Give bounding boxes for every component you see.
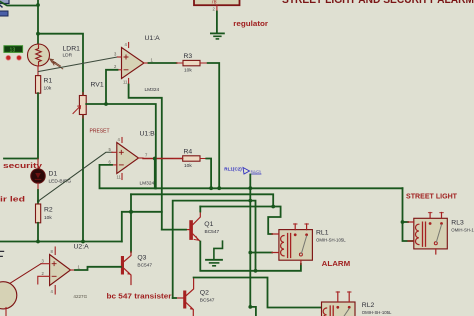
wire Q1 collector line — [200, 207, 280, 235]
op-amp U1:B — [112, 138, 143, 180]
svg-text:regulator: regulator — [233, 19, 268, 28]
node R2 trunk junction — [36, 240, 40, 244]
wire U1:B pin6 loop — [100, 165, 156, 188]
wire RV1 bottom down to trunk — [82, 115, 84, 242]
svg-text:ALARM: ALARM — [322, 259, 351, 268]
svg-text:11: 11 — [123, 80, 128, 85]
node bottom jog — [248, 305, 252, 309]
indicator dot left — [6, 55, 11, 60]
svg-text:OMIH-SH-105L: OMIH-SH-105L — [362, 310, 392, 315]
wire U2:A output to Q3 base — [75, 267, 121, 270]
transistor Q1 — [186, 212, 200, 242]
svg-text:10k: 10k — [44, 86, 52, 92]
node diagonal takeoff — [37, 200, 40, 203]
potentiometer RV1 — [73, 93, 86, 119]
relay RL2 — [322, 292, 356, 316]
wire U1:B output to R4 — [143, 158, 183, 160]
svg-text:11: 11 — [117, 175, 122, 180]
svg-text:RL1: RL1 — [316, 230, 329, 237]
svg-text:LM324: LM324 — [140, 181, 155, 187]
wire D1 to R2 — [37, 190, 39, 204]
svg-text:RL3: RL3 — [451, 220, 464, 227]
wire RV1 wiper to feedback column — [86, 104, 156, 188]
op-amp U1:A — [118, 43, 149, 85]
wire feedback loop vertical — [154, 159, 156, 189]
svg-text:ir led: ir led — [0, 195, 25, 204]
wire R1 bottom to security node — [4, 93, 38, 158]
pin numbers U1:B — [109, 137, 149, 180]
svg-text:4227G: 4227G — [73, 294, 87, 299]
svg-text:OMIH-SH-1: OMIH-SH-1 — [451, 228, 474, 233]
node trunk junctions — [209, 186, 213, 190]
wire RL1 pivot link — [256, 264, 301, 271]
indicator dot right — [17, 55, 22, 60]
relay RL3 — [408, 213, 447, 255]
svg-text:STREET LIGHT: STREET LIGHT — [406, 192, 457, 201]
wire blue label down trunk — [249, 175, 251, 307]
ground near Q1 — [206, 241, 223, 266]
svg-text:D1: D1 — [49, 171, 58, 178]
wire Q2 collector to RL2 — [194, 278, 322, 308]
wire Q1 collector up — [199, 207, 201, 212]
wire R4 to trunk — [206, 159, 211, 189]
blue terminal label RL1(C2) — [224, 167, 261, 174]
svg-text:LDR1: LDR1 — [63, 46, 81, 53]
svg-text:LM324: LM324 — [145, 87, 160, 93]
wire R3 to trunk — [208, 63, 220, 188]
node pivot tee — [254, 269, 258, 273]
regulator box — [194, 0, 240, 12]
svg-text:78: 78 — [211, 0, 217, 6]
wire trunk to RL3 coil — [403, 188, 414, 241]
svg-text:STREET LIGHT AND SECURITY ALAR: STREET LIGHT AND SECURITY ALARM — [282, 0, 474, 6]
svg-text:U1:B: U1:B — [140, 131, 156, 138]
ground marks left edge — [0, 251, 4, 256]
svg-text:10k: 10k — [184, 163, 192, 169]
clipped title text top right — [282, 0, 474, 6]
wire RL1 coil bottom to trunk — [250, 252, 272, 254]
resistor R3 — [177, 60, 208, 65]
probe display 13 — [4, 46, 23, 54]
svg-text:LDR: LDR — [63, 53, 73, 59]
svg-text:R4: R4 — [184, 149, 193, 156]
wire Q2 base line — [173, 201, 256, 298]
svg-text:U1:A: U1:A — [145, 35, 161, 42]
node top wire junction — [36, 3, 40, 7]
svg-text:Q1: Q1 — [204, 221, 213, 228]
svg-text:U2:A: U2:A — [74, 244, 90, 251]
node coil bottom junction — [248, 251, 252, 255]
svg-text:10k: 10k — [44, 215, 52, 221]
svg-text:RL1(C2): RL1(C2) — [251, 170, 261, 174]
node RL3 coil top branch — [401, 220, 405, 224]
ground regulator — [211, 33, 224, 39]
wire U1:A pin11 to Q1 base column — [129, 85, 162, 230]
wire regulator to ground — [216, 12, 218, 34]
LDR1 — [28, 44, 63, 69]
resistor R2 — [36, 204, 41, 223]
node line A to collector line — [271, 205, 275, 209]
svg-text:OMIH-SH-105L: OMIH-SH-105L — [316, 238, 346, 243]
wire Q3 collector column — [130, 194, 132, 252]
wire branch to trunk bottom — [122, 212, 162, 242]
node output feedback junction — [153, 157, 157, 161]
wire horizontal trunk y188 — [156, 187, 403, 189]
svg-text:RL2: RL2 — [362, 302, 375, 309]
blue label fragment left edge — [0, 11, 8, 16]
wire Q1 base — [162, 229, 186, 231]
svg-text:13: 13 — [10, 47, 16, 53]
node wiper pin2 junction — [104, 102, 108, 106]
transistor Q2 — [176, 278, 194, 316]
wire U1:A output to R3 — [149, 62, 177, 64]
op-amp U2:A — [38, 247, 75, 294]
relay RL1 — [272, 224, 312, 265]
wire Q2 base from trunk — [173, 297, 176, 299]
svg-text:R1: R1 — [44, 78, 53, 85]
wire bottom jog — [250, 307, 256, 316]
wire LDR bottom to R1 — [37, 66, 39, 76]
resistor R1 — [36, 76, 41, 94]
diagonal wire LDR to U1:A pin3 — [39, 57, 118, 72]
wire line A Q3 collector to Q1 collector line — [131, 194, 273, 206]
svg-text:BC547: BC547 — [205, 229, 220, 235]
svg-text:RV1: RV1 — [91, 82, 104, 89]
svg-text:R3: R3 — [184, 53, 193, 60]
LED D1 — [31, 159, 45, 190]
sensor circle bottom left — [0, 282, 17, 316]
node Q3 collector line crossing — [129, 210, 133, 214]
blue label fragment top-left corner — [0, 0, 9, 7]
svg-text:BC547: BC547 — [200, 297, 215, 303]
wire bottom trunk — [0, 241, 122, 243]
wire top-left corner diagonal — [0, 2, 38, 6]
pin numbers U1:A — [114, 42, 154, 85]
svg-text:Q2: Q2 — [200, 290, 209, 297]
pin numbers U2:A — [42, 249, 81, 294]
resistor R4 — [174, 156, 206, 161]
svg-text:bc 547 transister: bc 547 transister — [107, 292, 172, 301]
svg-text:Q3: Q3 — [137, 255, 146, 262]
wire vertical into LDR top — [37, 0, 39, 45]
svg-text:R2: R2 — [44, 207, 53, 214]
diagonal wire sensor to U2:A pin3 — [8, 264, 41, 285]
svg-text:10k: 10k — [184, 68, 192, 74]
wire U1:A pin2 feedback — [106, 70, 118, 104]
node LDR top branch — [36, 32, 40, 36]
wire R2 to trunk — [37, 223, 39, 242]
svg-text:RL1(C2): RL1(C2) — [224, 167, 242, 173]
svg-text:PRESET: PRESET — [90, 129, 110, 135]
diagonal wire D1 to U1:B pin5 — [38, 152, 112, 201]
transistor Q3 — [121, 252, 131, 285]
node trunk y201 — [248, 199, 252, 203]
wire LDR node to RV1 top — [38, 34, 83, 96]
wire Q1 emitter down to pivot line — [200, 242, 255, 271]
node RV1 trunk junction — [81, 240, 85, 244]
svg-text:BC547: BC547 — [137, 263, 152, 269]
